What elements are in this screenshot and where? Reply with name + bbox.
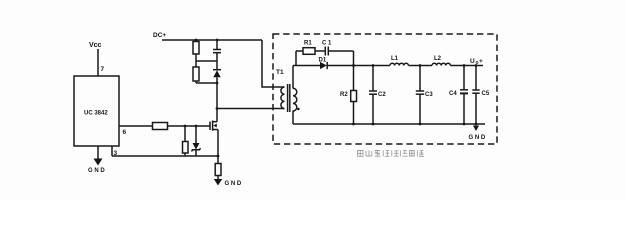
ground GND at source resistor [214,179,242,187]
capacitor C2 [369,66,386,125]
node junction C3 bottom [419,123,422,126]
svg-text:G N D: G N D [469,135,486,141]
inductor L2 [432,56,450,66]
diode snubber clamp [213,61,221,83]
inductor L1 [390,56,408,66]
capacitor C1 [315,41,354,66]
dashed output filter box [273,34,497,144]
resistor R2 [340,66,357,125]
wire Vcc lead to pin 7 [97,49,99,76]
node junction snubber to drain [216,82,219,85]
wire source down to node [217,130,219,157]
wire drain to transformer primary bottom [217,108,285,110]
resistor R1 [296,41,315,66]
resistor source sense [215,156,221,180]
node junction drain to primary [216,107,219,110]
wire snubber crossbar [196,60,217,62]
svg-text:6: 6 [123,129,127,136]
transformer T1 [276,69,300,112]
capacitor C5 [472,66,490,125]
node junction C3 top [419,64,422,67]
wire top rail segment 4 [450,65,483,67]
pin 3 [112,146,118,157]
node junction R2 top [352,64,355,67]
svg-text:G N D: G N D [225,181,242,187]
wire top rail segment 2 [327,65,390,67]
svg-text:C 1: C 1 [322,41,332,47]
node junction C4 bottom [463,123,466,126]
node source junction [217,155,220,158]
wire bottom rail [293,123,485,125]
op-amp U1 UC3842 [74,76,119,146]
capacitor C3 [416,66,434,125]
transistor Q1 MOSFET [210,121,218,131]
node junction DC+ at snubber C [216,39,219,42]
svg-text:C4: C4 [449,91,457,97]
ground GND under U1 [88,146,105,174]
node junction gate line left [184,125,187,128]
wire DC+ to transformer primary top [262,40,285,87]
diode D1 [319,58,328,70]
wire DC+ rail [162,39,262,41]
node junction gate line right [195,125,198,128]
wire pin 6 to gate resistor [119,125,153,127]
svg-text:Vcc: Vcc [89,42,102,49]
capacitor snubber [213,40,221,61]
wire top rail segment 1 [293,65,320,67]
svg-text:C5: C5 [482,91,490,97]
resistor gate pulldown [183,126,189,156]
svg-text:C2: C2 [378,92,386,98]
resistor snubber lower [193,61,199,83]
svg-text:R1: R1 [304,41,312,47]
svg-text:T1: T1 [276,69,284,76]
resistor snubber upper [193,42,199,62]
svg-text:UC 3842: UC 3842 [84,111,108,117]
node junction C5 top [475,64,478,67]
zener diode gate clamp [192,126,201,156]
svg-text:L1: L1 [391,56,399,62]
svg-text:U: U [470,58,475,65]
node junction R2 bottom [352,123,355,126]
svg-text:+: + [479,58,483,65]
ground GND output [469,126,486,142]
node junction DC+ at snubber R [195,39,198,42]
svg-text:L2: L2 [434,56,442,62]
svg-text:7: 7 [101,66,105,73]
wire drain up to snubber [216,83,218,122]
svg-text:R2: R2 [340,92,348,98]
svg-text:DC+: DC+ [153,32,166,39]
wire top rail segment 3 [408,65,432,67]
node junction C5 bottom [475,123,478,126]
caption 输出整流滤波电路 (blurred gray glyph marks) [358,150,424,156]
svg-text:D1: D1 [319,58,327,64]
wire gate resistor to gate [168,125,211,127]
resistor R gate series [153,123,168,130]
wire secondary bottom lead [292,111,294,125]
svg-text:C3: C3 [425,92,433,98]
node junction C4 top [463,64,466,67]
wire snubber bottom bar [196,82,217,84]
node junction C2 top [372,64,375,67]
node junction C2 bottom [372,123,375,126]
wire pin 3 to source node [112,155,218,157]
svg-text:G N D: G N D [88,168,105,174]
wire secondary top lead [292,66,294,89]
capacitor C4 [449,66,468,125]
